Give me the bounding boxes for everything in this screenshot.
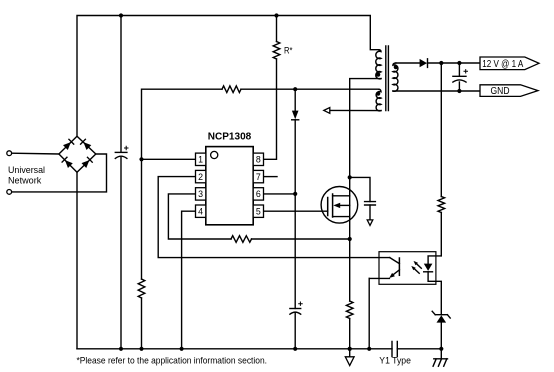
svg-text:GND: GND	[491, 86, 510, 97]
wire primary bottom to MOSFET drain vertical	[350, 79, 381, 301]
capacitor Vcc electrolytic plates	[290, 308, 301, 310]
wire secondary bottom to GND output	[393, 90, 480, 92]
pin 3 box	[196, 188, 206, 200]
node bleed resistor at ground rail	[139, 347, 143, 351]
phase dot aux	[376, 92, 380, 96]
wire pin 6 lead	[264, 193, 296, 195]
node zener at rail / chassis gnd	[439, 347, 443, 351]
resistor sense (MOSFET source to ground)	[346, 301, 353, 319]
node primary ground arrow junction	[348, 347, 352, 351]
ground primary arrow (open, points down)	[349, 349, 351, 357]
wire demag line corner down to pin 1 and bleed resistor	[142, 89, 223, 279]
node Vcc cap at ground rail	[293, 347, 297, 351]
svg-text:R*: R*	[284, 46, 293, 56]
wire bottom ground rail left of Y1 cap	[77, 348, 392, 350]
wire bulk cap branch lower	[120, 157, 122, 348]
wire sense filter resistor to MOSFET source node	[252, 238, 350, 240]
svg-text:5: 5	[256, 206, 261, 216]
diode output rectifier (pointing right)	[420, 59, 427, 67]
svg-text:6: 6	[256, 189, 261, 199]
wire MOSFET source vertical below sense resistor	[349, 319, 351, 349]
wire snubber cap to arrow	[369, 205, 371, 220]
svg-text:8: 8	[256, 155, 261, 165]
IC U1 NCP1308 body	[206, 147, 253, 225]
transformer primary winding	[376, 50, 381, 79]
svg-text:3: 3	[198, 189, 203, 199]
wire R* branch: top rail down to pin 8	[276, 16, 278, 42]
node Vcc diode tap on demag line	[293, 87, 297, 91]
pin 2 box	[196, 170, 206, 182]
opto emitter diagonal with arrow	[392, 270, 400, 276]
MOSFET drain tap	[333, 195, 350, 197]
wire secondary top to rectifier diode	[396, 62, 420, 64]
arrow snubber ground open (points down)	[367, 220, 373, 226]
wire pin 5 gate drive lead	[264, 210, 328, 212]
arrow demag open (points left)	[324, 108, 330, 114]
node feedback tap on 12V line	[439, 61, 443, 65]
MOSFET body arrow	[340, 204, 350, 206]
svg-text:NCP1308: NCP1308	[208, 130, 252, 142]
opto phototransistor base bar	[398, 258, 400, 275]
bridge rectifier outline	[59, 136, 96, 172]
wire opto LED cathode to zener	[428, 272, 441, 315]
bridge diode bottom-right	[82, 157, 93, 168]
wire Vcc branch middle (diode to cap)	[294, 120, 296, 309]
wire AC input line top terminal to bridge left corner	[12, 152, 59, 155]
resistor current sense filter (horizontal)	[231, 236, 252, 243]
plus sign Vcc cap	[298, 302, 303, 306]
wire Vcc branch upper (to diode)	[294, 89, 296, 110]
wire opto emitter down to Y1 rail	[368, 278, 370, 348]
node pin 4 at ground rail	[180, 347, 184, 351]
wire pin 1 lead	[142, 158, 197, 160]
opto light arrow 2	[413, 268, 419, 274]
node output cap at GND line	[457, 89, 461, 93]
capacitor Y1 safety plates	[392, 342, 397, 357]
node pin1 junction	[139, 157, 143, 161]
node bulk cap at ground rail	[119, 347, 123, 351]
MOSFET gate bar	[327, 198, 329, 216]
opto LED (pointing down)	[424, 264, 433, 271]
pin 4 box	[196, 205, 206, 217]
transformer core	[386, 46, 389, 111]
pin 6 box	[253, 188, 263, 200]
MOSFET source tap	[333, 216, 350, 218]
svg-text:Universal: Universal	[8, 165, 45, 176]
ground chassis symbol	[433, 349, 447, 366]
wire demag line aux winding to corner	[241, 88, 379, 90]
terminal input top	[7, 151, 12, 156]
plus sign output cap	[464, 69, 469, 73]
phase dot secondary	[394, 65, 398, 69]
wire bottom ground rail right of Y1 cap	[397, 348, 441, 350]
pin 8 box	[253, 153, 263, 165]
MOSFET channel bar	[332, 194, 334, 217]
node junction top rail at R*	[274, 13, 278, 17]
opto light arrow 1	[416, 263, 422, 269]
wire snubber branch	[350, 177, 370, 201]
opto emitter lead	[369, 277, 389, 279]
wire aux winding bottom to demag arrow	[330, 109, 381, 111]
capacitor output electrolytic plates	[453, 63, 466, 76]
wire pin 7 stub	[264, 176, 278, 178]
svg-text:4: 4	[198, 206, 203, 216]
transistor Q1 MOSFET circle	[321, 187, 358, 224]
svg-text:12 V @ 1 A: 12 V @ 1 A	[482, 59, 523, 70]
wire feedback divider vertical upper	[440, 63, 442, 197]
resistor bleed (pin1 to ground)	[138, 279, 145, 298]
wire bleed resistor bottom to rail	[141, 298, 143, 349]
IC pin-1 indicator circle	[211, 151, 218, 158]
plus sign bulk cap	[124, 146, 129, 150]
wire pin 2 to optocoupler collector	[158, 177, 390, 258]
wire R* to pin 8	[264, 59, 277, 159]
svg-text:7: 7	[256, 172, 261, 182]
wire top rail from bridge + to transformer primary top	[77, 16, 379, 137]
resistor R*	[273, 42, 280, 60]
node opto emitter at rail	[367, 347, 371, 351]
svg-text:Y1 Type: Y1 Type	[379, 356, 411, 367]
bridge diode bottom-left	[62, 157, 73, 168]
bridge diode top-left	[63, 139, 74, 150]
node output cap at 12V line	[457, 61, 461, 65]
svg-text:2: 2	[198, 172, 203, 182]
wire feedback resistor to opto LED anode	[428, 213, 441, 264]
capacitor snubber plates	[365, 202, 376, 205]
output pointer 12V	[480, 57, 539, 70]
node sense tap on MOSFET source line	[348, 237, 352, 241]
capacitor bulk electrolytic plates	[115, 151, 127, 153]
node junction top rail at bulk cap	[119, 13, 123, 17]
output pointer GND	[480, 85, 538, 97]
svg-text:*Please refer to the applicati: *Please refer to the application informa…	[77, 356, 268, 367]
wire zener anode to rail	[440, 323, 442, 349]
wire pin 3 to current sense resistor line	[168, 194, 231, 239]
phase dot primary	[376, 73, 380, 77]
transformer secondary winding	[393, 63, 398, 91]
node pin 6 junction on Vcc line	[293, 192, 297, 196]
bridge diode top-right	[81, 139, 92, 150]
resistor feedback	[438, 197, 445, 213]
wire bulk cap branch upper	[120, 16, 122, 153]
wire AC input line bottom terminal loop to bridge right corner	[12, 154, 107, 192]
wire Vcc branch lower (cap to rail)	[294, 313, 296, 349]
pin 7 box	[253, 170, 263, 182]
diode Vcc rectifier (pointing down)	[292, 111, 299, 120]
node sense resistor at ground rail	[348, 347, 352, 351]
svg-text:1: 1	[198, 155, 203, 165]
node snubber tap on drain line	[348, 175, 352, 179]
pin 1 box	[196, 153, 206, 165]
transformer aux winding	[376, 89, 381, 111]
wire bridge bottom to ground rail	[76, 172, 78, 348]
wire rectifier diode to 12V output	[428, 62, 481, 64]
wire pin 4 to ground rail	[182, 211, 196, 349]
pin 5 box	[253, 205, 263, 217]
opto collector diagonal	[390, 258, 400, 264]
resistor demag (horizontal on demag line)	[222, 86, 241, 93]
zener diode D2 (cathode up)	[432, 311, 450, 318]
terminal input bottom	[7, 190, 12, 195]
svg-text:Network: Network	[8, 176, 42, 187]
optocoupler U2 box	[379, 252, 436, 285]
